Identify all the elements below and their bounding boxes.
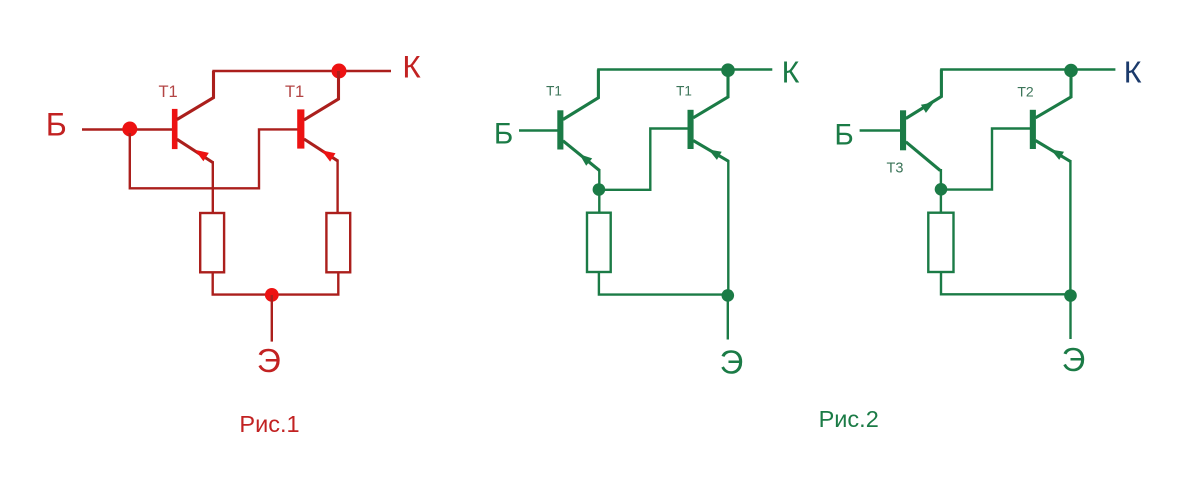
svg-text:Б: Б bbox=[494, 118, 513, 151]
svg-text:Э: Э bbox=[257, 343, 281, 380]
label T1 (left circuit, first) bbox=[158, 83, 177, 101]
wire bottom rail joining resistors bbox=[213, 272, 339, 294]
junction base input node bbox=[122, 122, 137, 137]
label T2 (right circuit, second) bbox=[1017, 84, 1034, 100]
node Б (base terminal label, right circuit) bbox=[834, 118, 853, 151]
wire collector top rail (right) bbox=[940, 68, 1115, 70]
svg-text:К: К bbox=[782, 56, 800, 90]
label T1 (left circuit, second) bbox=[285, 83, 304, 101]
wire base feedback from junction to T1b base bbox=[130, 129, 298, 188]
caption Рис.1 bbox=[239, 411, 299, 437]
junction emitter node bottom (right) bbox=[1064, 289, 1077, 302]
transistor T1 (left circuit, first) bbox=[172, 71, 214, 163]
label T3 (right circuit, first) bbox=[887, 161, 904, 177]
wire base input to T3 bar (right) bbox=[860, 129, 901, 131]
node К (collector terminal label, middle circuit) bbox=[782, 56, 800, 90]
caption Рис.2 bbox=[819, 406, 879, 432]
wire emitter T1a to resistor (middle) bbox=[598, 169, 600, 214]
svg-text:Э: Э bbox=[720, 343, 744, 380]
junction emitter-base node (middle) bbox=[593, 183, 606, 196]
wire emitter stub down to Э bbox=[271, 295, 273, 342]
wire emitter stub to Э (middle) bbox=[727, 295, 729, 339]
node Б (base terminal label, middle circuit) bbox=[494, 118, 513, 151]
transistor T1 (middle circuit, second) bbox=[688, 70, 729, 162]
svg-text:Э: Э bbox=[1062, 341, 1086, 378]
wire emitter stub to Э (right) bbox=[1069, 296, 1071, 340]
junction collector node K (middle) bbox=[721, 63, 735, 77]
wire base feedback to T2 base (right) bbox=[941, 129, 1030, 190]
transistor T3 (right circuit, first) bbox=[900, 70, 941, 171]
transistor T2 (right circuit, second) bbox=[1030, 70, 1071, 162]
junction collector node K (right) bbox=[1064, 64, 1078, 78]
svg-text:T1: T1 bbox=[546, 84, 562, 99]
label T1 (middle circuit, first) bbox=[546, 84, 562, 99]
node Э (emitter terminal label, right circuit) bbox=[1062, 341, 1086, 378]
node Б (base terminal label, left circuit) bbox=[46, 106, 67, 142]
svg-text:Рис.2: Рис.2 bbox=[819, 406, 879, 432]
svg-text:Рис.1: Рис.1 bbox=[239, 411, 299, 437]
resistor R (middle circuit) bbox=[587, 213, 611, 272]
wire emitter T1a down to resistor R1 bbox=[212, 161, 214, 213]
node К (collector terminal label, left circuit) bbox=[402, 49, 421, 85]
wire collector top rail bbox=[212, 70, 391, 72]
wire bottom rail (right) bbox=[941, 272, 1070, 294]
transistor T1 (left circuit, second) bbox=[297, 71, 338, 162]
resistor R1 (left circuit) bbox=[200, 213, 224, 272]
svg-text:T1: T1 bbox=[676, 84, 692, 99]
junction emitter-base node (right) bbox=[935, 183, 948, 196]
label T1 (middle circuit, second) bbox=[676, 84, 692, 99]
wire emitter T1b down to resistor R2 bbox=[336, 160, 338, 214]
junction emitter node bottom (middle) bbox=[722, 289, 735, 302]
junction collector node K bbox=[332, 64, 347, 79]
wire base feedback to T1b base (middle) bbox=[599, 129, 688, 190]
wire bottom rail (middle) bbox=[599, 272, 728, 295]
svg-text:T3: T3 bbox=[887, 161, 904, 177]
wire collector top rail (middle) bbox=[597, 68, 772, 70]
svg-text:К: К bbox=[402, 49, 421, 85]
svg-text:К: К bbox=[1124, 56, 1142, 90]
node Э (emitter terminal label, left circuit) bbox=[257, 343, 281, 380]
wire emitter T1b long vertical (middle) bbox=[727, 160, 729, 295]
svg-text:T1: T1 bbox=[285, 83, 304, 101]
svg-text:Б: Б bbox=[834, 118, 853, 151]
node Э (emitter terminal label, middle circuit) bbox=[720, 343, 744, 380]
transistor T1 (middle circuit, first) bbox=[557, 70, 599, 171]
resistor R (right circuit) bbox=[928, 213, 953, 272]
node К (collector terminal label, right circuit) bbox=[1124, 56, 1142, 90]
junction emitter node bbox=[265, 288, 279, 302]
svg-text:T2: T2 bbox=[1017, 84, 1034, 100]
wire emitter T3 to resistor (right) bbox=[940, 169, 942, 214]
wire base input to T1 bar (middle) bbox=[519, 129, 558, 131]
wire emitter T2 long vertical (right) bbox=[1069, 160, 1071, 296]
wire base input from Б to T1 left bar bbox=[82, 128, 172, 130]
svg-text:T1: T1 bbox=[158, 83, 177, 101]
svg-text:Б: Б bbox=[46, 106, 67, 142]
resistor R2 (left circuit) bbox=[326, 213, 350, 272]
